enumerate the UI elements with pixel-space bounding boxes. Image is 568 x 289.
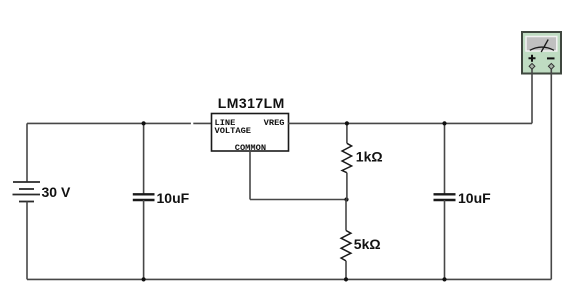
- wire: R1 top lead: [346, 123, 348, 143]
- node: junction C1 bottom on ground rail: [142, 277, 146, 281]
- resistor R1 zigzag: [342, 143, 352, 172]
- node: junction C2 bottom on ground rail: [442, 277, 446, 281]
- label 5kOhm: [354, 236, 381, 252]
- pin label VREG: [264, 118, 285, 128]
- wire: battery top lead: [26, 123, 28, 182]
- voltmeter XMM1 body: [522, 32, 561, 74]
- svg-text:LM317LM: LM317LM: [218, 95, 285, 111]
- wire: R2 bottom lead: [345, 261, 347, 280]
- pin label LINE VOLTAGE: [215, 118, 252, 136]
- node: junction COMMON and divider: [344, 197, 348, 201]
- wire: R2 top lead: [345, 200, 347, 231]
- voltmeter terminal +: [529, 63, 535, 69]
- wire: meter right lead to ground rail: [550, 66, 552, 279]
- node: junction C2 top on output rail: [442, 121, 446, 125]
- node: junction R1 top on output rail: [345, 121, 349, 125]
- label 1kOhm: [356, 148, 383, 164]
- label 10uF right: [458, 190, 491, 206]
- svg-text:1kΩ: 1kΩ: [356, 148, 383, 164]
- resistor R2 zigzag: [341, 231, 351, 261]
- capacitor C2 plates: [434, 194, 456, 200]
- node: junction R2 bottom on ground rail: [344, 277, 348, 281]
- wire: VREG output rail: [288, 122, 532, 124]
- svg-text:VOLTAGE: VOLTAGE: [215, 126, 252, 136]
- capacitor C1 plates: [133, 194, 155, 200]
- wire: capacitor C1 top lead: [143, 123, 145, 194]
- wire: top input rail from battery to regulator: [27, 122, 212, 124]
- wire: capacitor C2 top lead: [444, 123, 446, 194]
- svg-text:30 V: 30 V: [42, 184, 71, 200]
- wire: capacitor C2 bottom lead: [444, 200, 446, 279]
- voltmeter terminal -: [548, 63, 554, 69]
- label LM317LM: [218, 95, 285, 111]
- wire: battery bottom lead: [26, 202, 28, 280]
- svg-text:10uF: 10uF: [157, 190, 190, 206]
- node: junction C1 top on input rail: [142, 121, 146, 125]
- pin label COMMON: [235, 143, 266, 153]
- svg-text:VREG: VREG: [264, 118, 285, 128]
- wire: COMMON pin drop: [249, 151, 251, 200]
- battery V1 30 V: [13, 182, 41, 202]
- wire: R1 bottom lead: [346, 173, 348, 200]
- wire: meter left lead to output rail: [531, 66, 533, 123]
- wire: COMMON horizontal to divider: [250, 199, 347, 201]
- svg-text:10uF: 10uF: [458, 190, 491, 206]
- label 30 V: [42, 184, 71, 200]
- svg-text:5kΩ: 5kΩ: [354, 236, 381, 252]
- wire: capacitor C1 bottom lead: [143, 200, 145, 279]
- op-amp regulator U1 LM317LM box: [212, 114, 289, 152]
- wire: bottom ground rail: [27, 278, 551, 280]
- label 10uF left: [157, 190, 190, 206]
